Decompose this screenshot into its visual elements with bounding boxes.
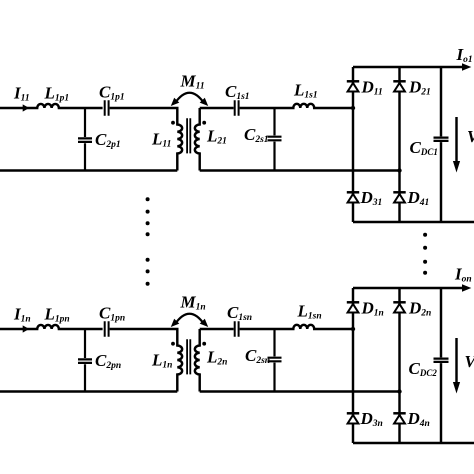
svg-text:V: V [465, 352, 474, 371]
svg-text:V: V [467, 127, 474, 146]
